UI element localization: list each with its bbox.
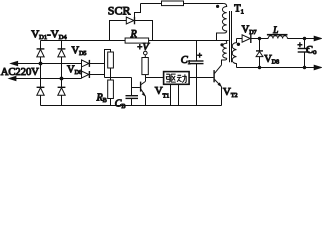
wire drive block ground stub 1 [170, 84, 172, 105]
wire L to output [287, 38, 314, 40]
transformer T1 primary winding W1 [217, 4, 227, 41]
wire RB bottom [110, 99, 112, 106]
node AC right junction [60, 77, 64, 81]
svg-text:RB: RB [96, 93, 107, 105]
node output bottom junction [303, 66, 306, 69]
terminal +V [144, 51, 148, 57]
svg-text:VT1: VT1 [155, 85, 170, 100]
diode VD7 [242, 34, 251, 43]
transformer T1 feedback winding W2 [223, 41, 227, 59]
wire VT1 base lead [132, 87, 140, 89]
svg-text:VD1-VD4: VD1-VD4 [31, 28, 67, 41]
transformer T1 core [230, 11, 232, 62]
arrow output minus [314, 65, 321, 69]
node AC left junction [39, 62, 43, 66]
wire bias node line [105, 77, 132, 79]
node W3 polarity dot [237, 43, 240, 46]
SCR thyristor [126, 17, 134, 25]
capacitor CB [126, 78, 139, 106]
diode VD6 [82, 71, 90, 78]
diode VD3 [37, 87, 45, 95]
svg-text:+V: +V [137, 42, 150, 53]
block drive unit [164, 72, 190, 85]
svg-text:VD7: VD7 [242, 25, 257, 37]
wire SCR gate lead [135, 4, 141, 18]
svg-text:VD5: VD5 [72, 46, 87, 58]
resistor R (series in rail) [125, 38, 149, 43]
wire secondary top to VD7 [237, 38, 243, 40]
svg-text:VD6: VD6 [67, 65, 82, 77]
transistor VT1 [140, 81, 146, 96]
wire bridge left leg [40, 41, 42, 106]
wire VT2 collector to winding W2 [222, 58, 227, 65]
arrow AC line 1 [11, 61, 18, 65]
wire VT2 emitter to ground [221, 87, 223, 106]
diode VD2 [58, 49, 66, 57]
svg-text:AC220V: AC220V [1, 67, 40, 78]
transistor VT2 [213, 65, 221, 87]
wire VD5 cathode [90, 63, 105, 65]
wire ground rail [41, 105, 222, 107]
svg-text:VD8: VD8 [264, 54, 279, 65]
svg-text:T1: T1 [234, 3, 244, 15]
wire R1 bottom to node [110, 68, 112, 80]
capacitor Co [298, 39, 310, 68]
capacitor C1 (electrolytic) [190, 41, 204, 106]
svg-text:C1: C1 [181, 55, 191, 66]
svg-text:Co: Co [306, 45, 317, 56]
wire AC input line 1 [11, 63, 81, 65]
svg-text:R: R [130, 29, 137, 40]
arrow output plus [314, 36, 321, 40]
wire VD6 cathode [90, 74, 105, 76]
diode VD4 [58, 87, 66, 95]
resistor RB [108, 80, 114, 99]
wire VD7 cathode to L [251, 38, 268, 40]
label drive (Chinese) [166, 74, 187, 83]
wire drive output to VT2 base [189, 77, 213, 79]
svg-text:VT2: VT2 [223, 86, 238, 99]
node VD8 top junction [258, 37, 261, 40]
wire SCR bypass loop [110, 21, 153, 41]
arrow AC line 2 [9, 76, 16, 80]
wire aux join vertical [105, 50, 111, 78]
wire VT1 emitter to ground [145, 96, 147, 105]
svg-text:SCR: SCR [108, 3, 131, 17]
node VD8 bottom junction [258, 66, 261, 69]
wire drive block ground stub 2 [178, 84, 180, 105]
wire main DC rail [41, 40, 229, 42]
wire bridge right leg [61, 41, 63, 106]
node W2 polarity dot [220, 43, 223, 46]
diode VD8 (freewheel) [256, 39, 263, 68]
node W1 polarity dot [216, 5, 219, 8]
inductor L [267, 34, 288, 39]
wire drive input [146, 77, 164, 79]
svg-text:+: + [298, 40, 303, 50]
diode VD1 [37, 49, 45, 57]
wire VD5 VD6 anode bar [81, 60, 83, 79]
wire AC input line 2 [10, 78, 82, 80]
node output top junction [303, 37, 306, 40]
svg-text:CB: CB [115, 99, 126, 109]
resistor Rc (+V dropper) [142, 58, 148, 75]
svg-text:L: L [272, 25, 278, 35]
resistor R2 (top, on feedback line) [162, 1, 184, 6]
wire top feedback line from SCR gate to transformer primary top [141, 3, 224, 5]
diode VD5 [82, 60, 90, 67]
svg-text:+: + [197, 50, 202, 60]
wire output ground rail [237, 67, 315, 69]
resistor R1 (aux series) [108, 52, 114, 68]
wire VT1 collector [145, 75, 147, 82]
transformer T1 secondary winding W3 [232, 39, 236, 68]
